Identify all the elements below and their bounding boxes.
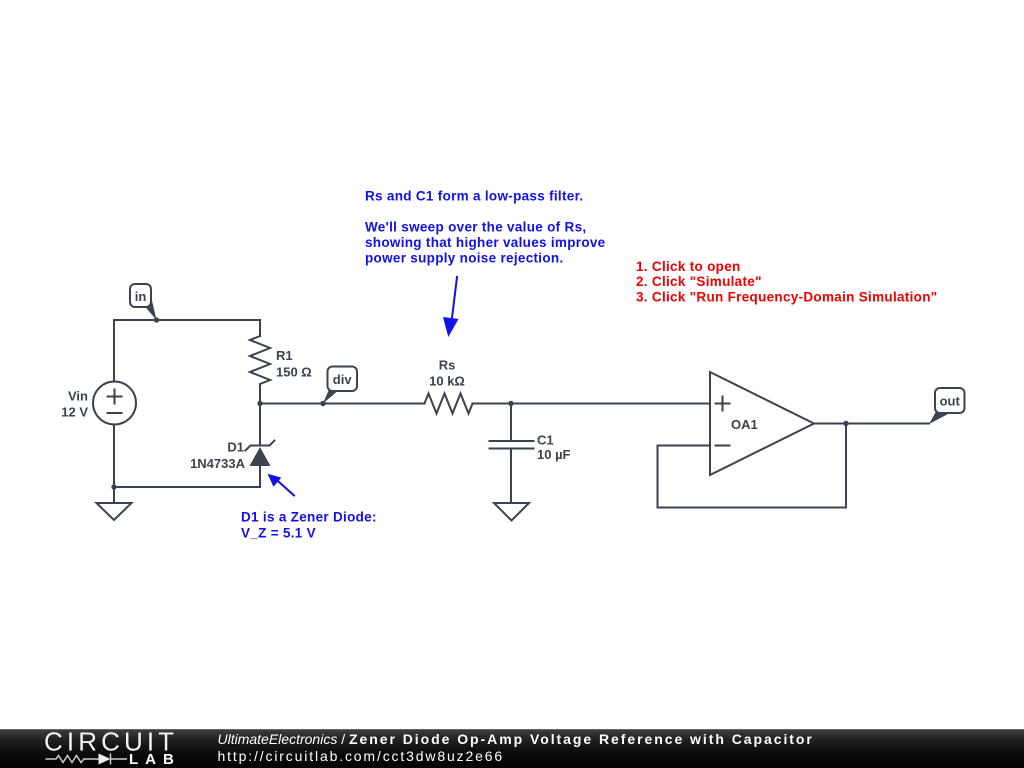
svg-text:http://circuitlab.com/cct3dw8u: http://circuitlab.com/cct3dw8uz2e66 <box>218 748 505 764</box>
svg-text:10 µF: 10 µF <box>537 447 571 462</box>
wire Rs to op-amp <box>473 403 711 405</box>
svg-text:LAB: LAB <box>129 751 181 768</box>
resistor Rs 10 kohm <box>425 358 473 414</box>
svg-text:V_Z = 5.1 V: V_Z = 5.1 V <box>241 526 316 541</box>
annotation blue arrow to Rs <box>443 277 459 337</box>
svg-text:out: out <box>940 394 961 409</box>
svg-text:div: div <box>333 372 353 387</box>
svg-text:Rs and C1 form a low-pass filt: Rs and C1 form a low-pass filter. <box>365 189 583 204</box>
svg-text:UltimateElectronics / Zener Di: UltimateElectronics / Zener Diode Op-Amp… <box>218 731 814 747</box>
zener diode D1 1N4733A <box>190 404 274 488</box>
wire div node to Rs <box>260 403 425 405</box>
op-amp OA1 <box>710 372 814 475</box>
annotation blue arrow to D1 <box>268 474 295 496</box>
svg-text:in: in <box>135 289 147 304</box>
voltage source V1 Vin <box>61 382 136 425</box>
node in flag <box>130 284 159 323</box>
logo resistor-diode glyph <box>46 754 128 765</box>
ground symbol under C1 <box>494 503 529 521</box>
svg-text:We'll sweep over the value of: We'll sweep over the value of Rs, <box>365 220 586 235</box>
svg-text:power supply noise rejection.: power supply noise rejection. <box>365 251 564 266</box>
annotation red instructions text <box>636 259 937 304</box>
svg-text:10 kΩ: 10 kΩ <box>429 374 465 389</box>
svg-text:showing that higher values imp: showing that higher values improve <box>365 235 606 250</box>
svg-text:1. Click to open: 1. Click to open <box>636 259 741 274</box>
junction dot output node <box>843 421 848 426</box>
resistor R1 150 ohm <box>250 336 312 404</box>
svg-text:R1: R1 <box>276 348 293 363</box>
annotation blue text low-pass filter <box>365 189 606 266</box>
junction dot C1 tap <box>508 401 513 406</box>
capacitor C1 10 uF <box>490 404 571 504</box>
svg-text:D1 is a Zener Diode:: D1 is a Zener Diode: <box>241 510 377 525</box>
svg-text:2. Click "Simulate": 2. Click "Simulate" <box>636 274 762 289</box>
svg-text:C1: C1 <box>537 433 554 448</box>
svg-text:12 V: 12 V <box>61 405 88 420</box>
svg-text:3. Click "Run Frequency-Domain: 3. Click "Run Frequency-Domain Simulatio… <box>636 289 937 304</box>
junction dot at ground rail <box>111 484 116 489</box>
svg-text:Rs: Rs <box>439 358 456 373</box>
wire bottom rail <box>114 486 260 488</box>
wire top loop from Vin to R1 <box>114 320 260 382</box>
annotation blue text zener diode <box>241 510 377 541</box>
wire feedback loop from inverting input <box>658 424 847 508</box>
svg-text:Vin: Vin <box>68 389 88 404</box>
svg-text:1N4733A: 1N4733A <box>190 456 246 471</box>
node div flag <box>320 367 357 407</box>
svg-text:150 Ω: 150 Ω <box>276 365 312 380</box>
node out flag <box>929 388 965 424</box>
ground symbol left <box>97 487 132 520</box>
wire Vin bottom to ground rail <box>113 425 115 488</box>
svg-text:OA1: OA1 <box>731 417 758 432</box>
wire op-amp output <box>814 423 929 425</box>
svg-text:D1: D1 <box>227 440 244 455</box>
junction dot div node <box>257 401 262 406</box>
